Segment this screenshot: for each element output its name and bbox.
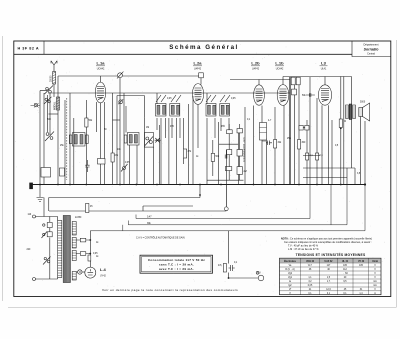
svg-text:UL 41: UL 41: [342, 260, 349, 263]
svg-text:P.U: P.U: [257, 273, 261, 275]
screened lead: [290, 77, 291, 185]
IFT1 box a: [156, 95, 167, 116]
line y211 with resistor 45: [49, 210, 226, 212]
tube L1b: [275, 61, 289, 106]
NOTA: [281, 238, 372, 252]
svg-text:Vg2: Vg2: [288, 273, 293, 275]
wire y177.5: [303, 177, 347, 179]
ground: [37, 185, 44, 202]
core: [63, 216, 70, 283]
secondary 3: [72, 251, 76, 261]
wire y206: [143, 206, 193, 211]
wire y120 stub: [113, 119, 121, 121]
tube L3: [318, 61, 331, 106]
resistor block left low: [41, 168, 51, 178]
svg-text:0,05: 0,05: [93, 253, 98, 255]
small caps under: [88, 255, 91, 261]
osc coil box right: [124, 133, 139, 146]
wire y114 stub: [49, 113, 59, 115]
tube top stubs: [101, 76, 326, 85]
svg-text:0,05: 0,05: [231, 98, 236, 100]
svg-text:Commutateur P.O - G.O: Commutateur P.O - G.O: [243, 137, 246, 162]
svg-text:Vf: Vf: [289, 289, 292, 291]
svg-text:mA: mA: [373, 280, 377, 283]
svg-text:Central: Central: [367, 53, 375, 56]
mains transformer: [58, 216, 77, 283]
wire top line y76: [58, 75, 199, 77]
svg-text:L.1b: L.1b: [275, 61, 284, 66]
tube L2b: [251, 61, 264, 106]
svg-text:L3: L3: [321, 61, 326, 66]
svg-text:Schéma Général: Schéma Général: [169, 44, 239, 51]
capacitor pairs: [266, 141, 272, 146]
svg-text:2M: 2M: [244, 171, 247, 173]
svg-text:L.1a: L.1a: [96, 61, 105, 66]
svg-text:5000: 5000: [360, 102, 366, 104]
pilot lamp: [76, 271, 77, 273]
wire y76.5 right: [283, 76, 352, 78]
svg-text:UY42: UY42: [100, 276, 106, 278]
svg-text:0,05: 0,05: [308, 285, 313, 287]
svg-text:Consommation totale 117 V 50 H: Consommation totale 117 V 50 Hz: [148, 258, 205, 262]
secondary HT: [72, 222, 76, 236]
commut circle: [225, 150, 227, 207]
resistor low 2: [60, 168, 65, 176]
svg-text:sans T.C : I = 29 mA.: sans T.C : I = 29 mA.: [159, 263, 194, 267]
svg-text:L.4: L.4: [100, 267, 107, 272]
svg-text:C.A.V = CONTRÔLE AUTOMATIQUE D: C.A.V = CONTRÔLE AUTOMATIQUE DE GAIN: [136, 236, 185, 239]
svg-text:UL41: UL41: [321, 69, 327, 71]
svg-text:UCH42: UCH42: [276, 69, 284, 71]
svg-text:Unité: Unité: [372, 260, 378, 263]
paper scan edges: [3, 36, 397, 308]
consumption box: [140, 255, 213, 273]
wire ties filter: [207, 124, 244, 180]
svg-text:2x350: 2x350: [75, 217, 82, 219]
output transformer: [346, 102, 366, 120]
svg-text:Département: Département: [364, 43, 379, 47]
voltage selector: [42, 217, 53, 280]
svg-text:UCH42: UCH42: [97, 69, 105, 71]
table: [280, 258, 382, 295]
coil L osc: [57, 97, 60, 110]
svg-text:Sorradio: Sorradio: [364, 48, 380, 52]
osc coil box left: [69, 133, 88, 147]
tube L2a: [192, 61, 203, 105]
svg-text:0,05: 0,05: [125, 162, 130, 164]
RC to pickup: [229, 231, 259, 278]
pair small caps right: [299, 125, 303, 130]
svg-text:L.2b: L.2b: [251, 61, 260, 66]
IFT2 box a: [206, 95, 216, 116]
trimmer inside shield: [119, 100, 123, 104]
svg-text:UAF42: UAF42: [194, 68, 202, 71]
svg-text:Électrodes: Électrodes: [284, 260, 296, 263]
wire y79.5: [230, 79, 290, 81]
boxes on right top: [291, 77, 295, 85]
selector lower: [43, 257, 51, 265]
wires RF input section verticals: [40, 76, 137, 185]
trimmer stack box: [260, 123, 267, 141]
svg-text:Voir en dernière page la: Voir en dernière page la note concernant…: [102, 288, 238, 292]
resistor horizontal mid: [98, 159, 106, 165]
svg-text:TENSIONS ET INTENSITÉS MOYE: TENSIONS ET INTENSITÉS MOYENNES: [296, 252, 366, 257]
earth terminal: [31, 103, 41, 108]
IFT1 box b: [170, 95, 181, 116]
wire topcap stub: [200, 78, 202, 85]
tube L4 rectifier: [85, 267, 107, 278]
switch S1b: [44, 97, 52, 104]
svg-text:30000: 30000: [51, 75, 53, 82]
IFT2 box b: [220, 95, 230, 116]
filter column caps: [225, 129, 242, 171]
CAV step lines: [136, 185, 310, 219]
volume pot cluster: [144, 133, 160, 147]
resistors vertical: [85, 118, 343, 213]
HT resistors: [80, 238, 86, 242]
svg-text:MODUL: MODUL: [55, 101, 57, 110]
main bus: [30, 184, 365, 186]
cap at L3 grid: [306, 93, 315, 97]
left terminal: [29, 183, 33, 190]
dept box right: [352, 41, 391, 57]
title block left box: [43, 41, 45, 54]
svg-text:→ 60: → 60: [342, 273, 348, 275]
svg-text:0,05: 0,05: [167, 98, 172, 100]
svg-text:UAF42: UAF42: [252, 68, 260, 71]
oscillator shield box: [117, 95, 144, 97]
secondary heater: [72, 272, 76, 281]
trimmer C top: [118, 73, 123, 78]
svg-text:mA: mA: [373, 284, 377, 287]
primary winding: [58, 221, 62, 278]
svg-text:H 3F 82 A: H 3F 82 A: [18, 46, 40, 50]
svg-text:UAF 42: UAF 42: [325, 260, 334, 263]
switch S2: [45, 132, 54, 142]
junction dots: [39, 183, 366, 185]
svg-text:UCH 42: UCH 42: [306, 260, 315, 263]
top cap box L2a: [199, 73, 204, 78]
svg-text:R (U→A): R (U→A): [285, 268, 295, 271]
svg-text:Vg1: Vg1: [288, 277, 293, 279]
wires detector-output section verticals: [245, 77, 365, 185]
svg-text:12,6: 12,6: [326, 289, 331, 291]
antenna: [51, 61, 57, 76]
misc small labels: [47, 95, 361, 267]
switch S3: [121, 164, 128, 172]
switch S1: [45, 86, 54, 95]
dashed link: [66, 98, 68, 180]
mains terminals: [27, 214, 58, 281]
wire grid line y93: [48, 92, 290, 94]
svg-text:L.2a: L.2a: [193, 61, 202, 66]
secondary 2: [72, 238, 76, 249]
tube L1a: [95, 61, 105, 103]
svg-text:0,47: 0,47: [147, 217, 152, 219]
cap low mid: [85, 160, 89, 172]
wires IF section verticals: [144, 93, 238, 185]
svg-text:avec T.C : I = 29 mA.: avec T.C : I = 29 mA.: [159, 267, 194, 271]
svg-text:1M: 1M: [146, 127, 149, 129]
svg-text:L.M : 47 nF au lieu de 47 %: L.M : 47 nF au lieu de 47 %: [288, 248, 319, 251]
right horizontals: [262, 141, 355, 168]
speaker: [359, 103, 370, 121]
svg-text:UY 42: UY 42: [358, 260, 365, 263]
antenna coil 30000: [53, 72, 56, 85]
below-bus lines: [49, 185, 200, 198]
header band line: [14, 53, 352, 55]
